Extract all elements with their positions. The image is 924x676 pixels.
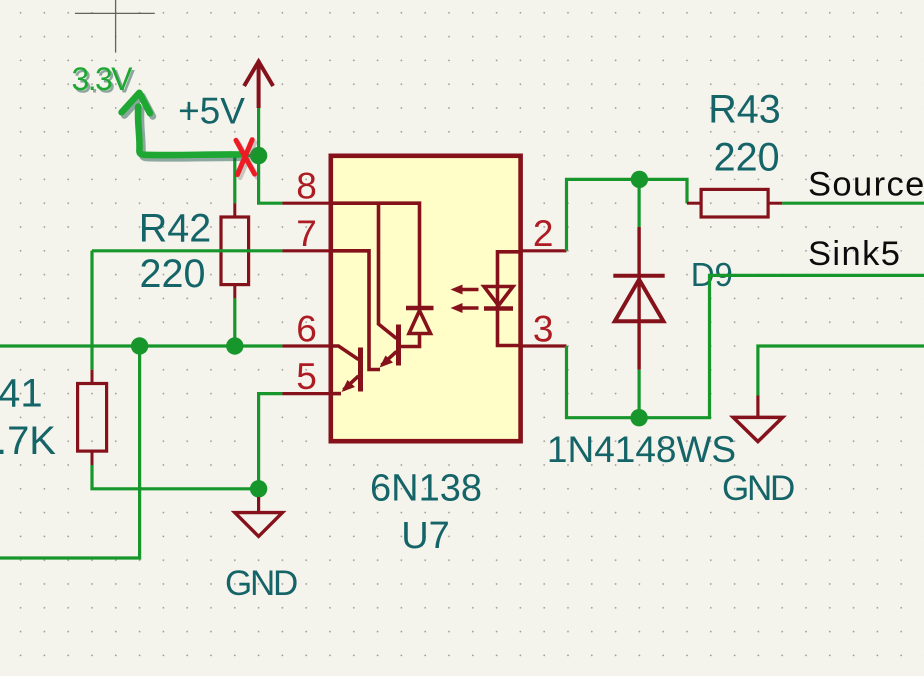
resistor R43: [687, 189, 782, 217]
pin 6: [282, 344, 330, 347]
svg-text:GND: GND: [722, 469, 794, 508]
pin 3: [521, 344, 567, 347]
power symbol +5V: [244, 61, 273, 109]
svg-text:8: 8: [296, 166, 317, 207]
light arrow 1: [451, 285, 479, 295]
light arrow 2: [451, 303, 479, 313]
svg-text:3.3V: 3.3V: [72, 61, 134, 97]
wire +5V vertical stub: [257, 108, 260, 156]
pin 5: [282, 392, 330, 395]
junction dot E: [631, 171, 648, 188]
pin6 internal / Q2 collector: [330, 346, 359, 360]
svg-text:Sink5: Sink5: [808, 235, 901, 273]
ground right: [733, 396, 782, 442]
svg-text:7: 7: [296, 213, 317, 254]
wire right gnd net: [758, 346, 924, 396]
LED cathode bar: [484, 306, 513, 311]
junction dot B: [131, 337, 148, 354]
junction dot C: [226, 337, 243, 354]
annotation 3.3V wire (green marker): [122, 93, 243, 158]
pin 8: [282, 202, 330, 205]
wire gnd stub left: [257, 489, 260, 497]
wire D9 bottom: [637, 370, 640, 418]
wire R42 top: [233, 156, 236, 204]
wire Source: [782, 202, 924, 205]
wire 3V3 horizontal to junction: [235, 154, 259, 157]
wire R41 top vertical: [90, 251, 93, 370]
LED rail: [498, 252, 521, 346]
svg-text:U7: U7: [401, 515, 450, 557]
svg-text:R41: R41: [0, 372, 43, 416]
svg-text:6: 6: [296, 308, 317, 349]
junction dot A: [250, 147, 267, 164]
U1 internals: darlington + photodiode: [330, 203, 520, 393]
wire pin3 to sink net: [567, 275, 924, 417]
svg-text:+5V: +5V: [178, 91, 245, 132]
junction dot F: [630, 409, 647, 426]
wire junction to pin8: [259, 156, 283, 204]
ERC marker X: [236, 140, 257, 178]
svg-text:R43: R43: [708, 88, 780, 132]
svg-text:GND: GND: [225, 564, 297, 603]
Q2 emitter arrowhead: [342, 380, 356, 392]
transistor Q1 collector: [379, 203, 397, 338]
transistor Q1 base bar: [396, 325, 401, 366]
photodiode D int: [406, 306, 434, 311]
svg-text:4.7K: 4.7K: [0, 419, 56, 463]
svg-text:3: 3: [533, 308, 554, 349]
svg-text:Source5: Source5: [808, 166, 924, 204]
svg-text:220: 220: [714, 135, 780, 179]
svg-text:6N138: 6N138: [370, 467, 482, 509]
wire branch down-left: [0, 346, 140, 558]
transistor Q2 emitter: [344, 376, 359, 390]
wire main horizontal net: [0, 344, 282, 347]
diode D9: [613, 227, 664, 370]
op(to)coupler U1 box: [331, 156, 521, 441]
pin 2: [521, 249, 567, 252]
wire R42 bottom: [233, 298, 236, 346]
wire pin7 net: [92, 249, 282, 252]
wire D9 top: [637, 179, 640, 227]
transistor Q2 base bar: [358, 348, 363, 392]
resistor R41: [78, 370, 107, 465]
pin7 internal: [330, 251, 380, 370]
pin 7: [282, 249, 330, 252]
svg-text:5: 5: [296, 356, 317, 397]
wire pin5 net: [259, 394, 283, 489]
LED triangle: [484, 287, 513, 306]
transistor Q1 emitter: [382, 352, 397, 366]
ground left: [235, 497, 283, 536]
pin5 internal: [330, 392, 341, 396]
pin8 internal rail: [330, 203, 420, 308]
svg-text:2: 2: [533, 213, 554, 254]
wire R41 bottom to gnd net: [92, 465, 259, 489]
svg-text:1N4148WS: 1N4148WS: [547, 429, 736, 470]
junction dot D: [250, 480, 267, 497]
wire pin2 to R43 net: [567, 179, 688, 250]
resistor R42: [221, 203, 249, 298]
svg-text:R42: R42: [139, 207, 211, 251]
origin crosshair: [75, 0, 155, 53]
svg-text:220: 220: [140, 252, 206, 296]
Q1 emitter arrowhead: [380, 356, 394, 368]
